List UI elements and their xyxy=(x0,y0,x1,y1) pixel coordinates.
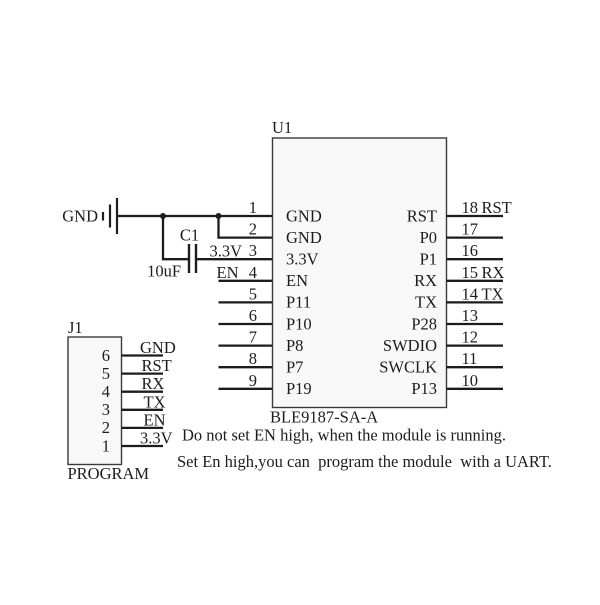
svg-text:5: 5 xyxy=(249,284,257,303)
wire: ground rail to U1 pin 1 xyxy=(117,215,273,217)
svg-text:13: 13 xyxy=(462,306,479,325)
svg-text:11: 11 xyxy=(462,349,478,368)
svg-text:3.3V: 3.3V xyxy=(209,242,242,261)
svg-text:P7: P7 xyxy=(286,358,303,377)
svg-text:3: 3 xyxy=(102,400,110,419)
svg-text:GND: GND xyxy=(62,207,98,226)
svg-text:10uF: 10uF xyxy=(147,262,181,281)
svg-text:Set En high,you can program t: Set En high,you can program the module w… xyxy=(177,452,552,471)
svg-text:RST: RST xyxy=(482,198,512,217)
svg-text:P10: P10 xyxy=(286,314,312,333)
wire: U1 pin 5 stub xyxy=(219,301,274,303)
svg-text:7: 7 xyxy=(249,328,257,347)
junction: ground rail / pin 2 branch xyxy=(216,213,222,219)
svg-text:2: 2 xyxy=(102,418,110,437)
svg-text:TX: TX xyxy=(415,293,437,312)
svg-text:18: 18 xyxy=(462,198,479,217)
svg-text:GND: GND xyxy=(140,338,176,357)
wire: U1 pin 15 stub xyxy=(447,280,504,282)
svg-text:16: 16 xyxy=(462,241,479,260)
svg-text:GND: GND xyxy=(286,228,322,247)
svg-text:6: 6 xyxy=(249,306,257,325)
svg-text:C1: C1 xyxy=(180,226,199,245)
wire: J1 pin 6 stub xyxy=(122,354,164,356)
wire: U1 pin 16 stub xyxy=(447,258,504,260)
wire: J1 pin 5 stub xyxy=(122,372,164,374)
wire: J1 pin 2 stub xyxy=(122,427,164,429)
svg-text:TX: TX xyxy=(482,284,504,303)
svg-text:J1: J1 xyxy=(68,318,83,337)
capacitor C1 xyxy=(189,244,196,273)
svg-text:6: 6 xyxy=(102,346,110,365)
svg-text:SWDIO: SWDIO xyxy=(383,336,437,355)
svg-text:2: 2 xyxy=(249,220,257,239)
svg-text:P0: P0 xyxy=(420,228,437,247)
svg-text:SWCLK: SWCLK xyxy=(379,358,437,377)
wire: U1 pin 9 stub xyxy=(219,388,274,390)
svg-text:9: 9 xyxy=(249,371,257,390)
ground symbol xyxy=(103,198,117,234)
wire: C1 right plate to U1 pin 3 xyxy=(196,258,273,260)
svg-text:1: 1 xyxy=(249,198,257,217)
svg-text:4: 4 xyxy=(102,382,110,401)
svg-text:10: 10 xyxy=(462,371,479,390)
wire: U1 pin 8 stub xyxy=(219,366,274,368)
svg-text:TX: TX xyxy=(144,392,166,411)
wire: U1 pin 11 stub xyxy=(447,366,504,368)
svg-text:12: 12 xyxy=(462,328,479,347)
svg-text:BLE9187-SA-A: BLE9187-SA-A xyxy=(270,408,378,427)
svg-text:17: 17 xyxy=(462,220,479,239)
svg-text:15: 15 xyxy=(462,263,479,282)
svg-text:RST: RST xyxy=(407,206,437,225)
svg-text:5: 5 xyxy=(102,364,110,383)
svg-text:P19: P19 xyxy=(286,379,312,398)
svg-text:P11: P11 xyxy=(286,293,311,312)
IC U1 body xyxy=(273,138,447,408)
wire: U1 pin 12 stub xyxy=(447,344,504,346)
svg-text:EN: EN xyxy=(144,410,166,429)
svg-text:P28: P28 xyxy=(411,314,437,333)
svg-text:3.3V: 3.3V xyxy=(140,429,173,448)
wire: U1 pin 18 stub xyxy=(447,215,504,217)
wire: U1 pin 6 stub xyxy=(219,323,274,325)
svg-text:3: 3 xyxy=(249,241,257,260)
svg-text:EN: EN xyxy=(286,271,308,290)
svg-text:U1: U1 xyxy=(272,118,292,137)
svg-text:8: 8 xyxy=(249,349,257,368)
wire: branch down to U1 pin 2 xyxy=(219,216,274,238)
svg-text:P1: P1 xyxy=(420,250,437,269)
svg-text:P8: P8 xyxy=(286,336,303,355)
svg-text:RX: RX xyxy=(142,374,165,393)
connector J1 body xyxy=(68,337,122,465)
wire: U1 pin 17 stub xyxy=(447,236,504,238)
wire: J1 pin 4 stub xyxy=(122,391,164,393)
svg-text:Do not set EN high, when the m: Do not set EN high, when the module is r… xyxy=(182,426,506,445)
wire: U1 pin 14 stub xyxy=(447,301,504,303)
svg-text:RX: RX xyxy=(482,263,505,282)
wire: U1 pin 13 stub xyxy=(447,323,504,325)
svg-text:GND: GND xyxy=(286,206,322,225)
svg-text:14: 14 xyxy=(462,284,479,303)
svg-text:4: 4 xyxy=(249,263,257,282)
svg-text:3.3V: 3.3V xyxy=(286,250,319,269)
junction: ground rail / C1 branch xyxy=(160,213,166,219)
wire: U1 pin 7 stub xyxy=(219,344,274,346)
wire: J1 pin 1 stub xyxy=(122,445,164,447)
svg-text:EN: EN xyxy=(217,263,239,282)
svg-text:RX: RX xyxy=(414,271,437,290)
svg-text:1: 1 xyxy=(102,436,110,455)
wire: ground rail down to C1 left plate xyxy=(163,216,188,259)
wire: J1 pin 3 stub xyxy=(122,409,164,411)
svg-text:P13: P13 xyxy=(411,379,437,398)
wire: U1 pin 10 stub xyxy=(447,388,504,390)
wire: U1 pin 4 stub xyxy=(219,280,274,282)
svg-text:PROGRAM: PROGRAM xyxy=(68,464,150,483)
svg-text:RST: RST xyxy=(142,356,172,375)
